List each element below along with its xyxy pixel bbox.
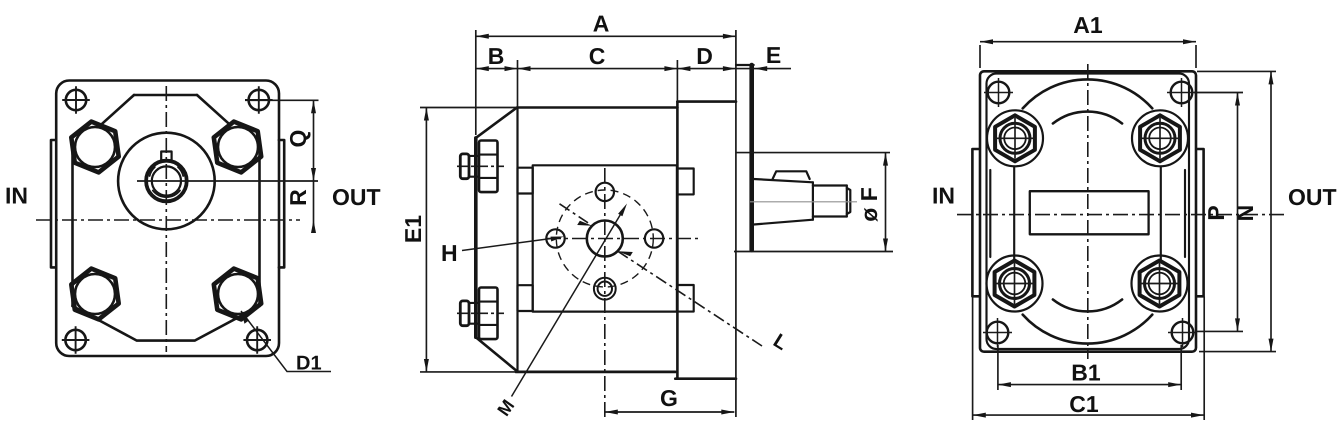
svg-text:B1: B1 (1071, 360, 1101, 386)
svg-text:P: P (1203, 205, 1229, 220)
svg-text:A1: A1 (1073, 12, 1103, 38)
svg-text:C1: C1 (1069, 391, 1099, 417)
svg-text:B: B (488, 43, 505, 69)
svg-text:Q: Q (285, 130, 311, 148)
svg-text:H: H (441, 240, 458, 266)
svg-text:E1: E1 (400, 215, 426, 243)
svg-text:ø F: ø F (856, 187, 882, 222)
svg-text:D1: D1 (296, 353, 322, 375)
svg-text:R: R (285, 189, 311, 206)
svg-text:D: D (696, 43, 713, 69)
svg-text:C: C (589, 43, 606, 69)
svg-text:N: N (1232, 205, 1258, 222)
svg-text:A: A (593, 11, 610, 37)
svg-text:E: E (766, 42, 781, 68)
svg-text:IN: IN (5, 183, 28, 209)
svg-text:OUT: OUT (1288, 184, 1337, 210)
svg-text:G: G (660, 385, 678, 411)
svg-text:IN: IN (932, 183, 955, 209)
svg-text:OUT: OUT (332, 184, 381, 210)
